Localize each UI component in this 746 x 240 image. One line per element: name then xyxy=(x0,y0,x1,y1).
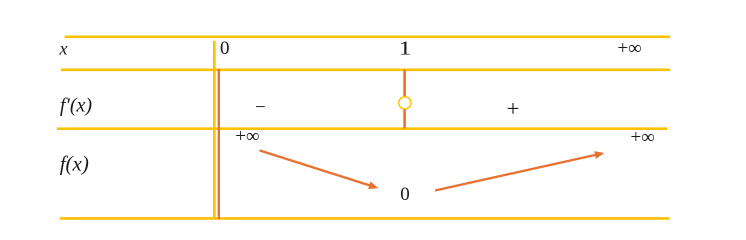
row line top (x row) xyxy=(65,35,670,38)
+infinity right (f row) xyxy=(631,127,655,149)
vertical separator at x=0 (gold) xyxy=(213,41,216,219)
bottom line xyxy=(60,217,670,220)
label x xyxy=(60,38,68,59)
vertical tick at x=1 below circle xyxy=(403,109,406,128)
value 0 (f row minimum) xyxy=(400,184,410,206)
label f'(x) xyxy=(60,95,92,118)
descending arrow shaft xyxy=(260,150,372,186)
value +infinity (top row) xyxy=(617,38,641,60)
ascending arrow shaft xyxy=(435,155,597,191)
hollow circle at x=1 xyxy=(399,97,411,109)
vertical tick at x=1 above circle xyxy=(403,70,406,97)
row line under x row xyxy=(61,69,670,72)
+infinity left (f row) xyxy=(235,126,259,148)
value 1 (top row) xyxy=(399,38,412,61)
second bar of double line (orange) xyxy=(218,69,220,219)
minus sign xyxy=(255,97,266,119)
descending arrow head xyxy=(368,182,378,190)
value 0 (top row) xyxy=(220,38,230,60)
row line under f'(x) row xyxy=(57,127,667,130)
plus sign xyxy=(507,96,520,122)
ascending arrow head xyxy=(594,151,604,159)
label f(x) xyxy=(60,152,89,177)
